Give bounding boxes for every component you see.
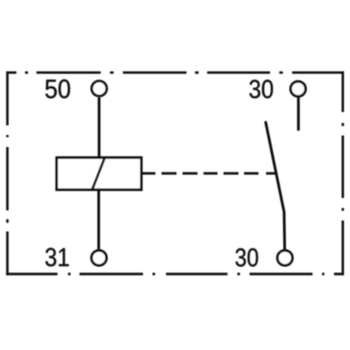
terminal label 30 top [249, 80, 273, 99]
terminal 50 circle [92, 81, 107, 96]
terminal 30 bottom circle [277, 250, 292, 265]
switch movable contact blade [266, 122, 285, 249]
coil K1 rectangle [57, 158, 142, 190]
terminal label 31 [45, 248, 68, 267]
terminal 30 top circle [291, 81, 306, 96]
wire coil bottom to terminal 31 [97, 189, 100, 250]
relay enclosure dashed border top [6, 71, 344, 73]
coil K1 diagonal stroke [92, 158, 104, 190]
terminal label 30 bottom [236, 248, 259, 266]
wire terminal 30 top to fixed contact [297, 98, 300, 131]
terminal label 50 [45, 79, 70, 98]
relay enclosure dashed border left [6, 71, 8, 275]
relay enclosure dashed border bottom [6, 273, 344, 275]
actuator dashed linkage coil to switch [141, 172, 277, 175]
wire terminal 50 to coil top [98, 97, 101, 158]
relay enclosure dashed border right [342, 71, 344, 275]
terminal 31 circle [92, 250, 107, 265]
